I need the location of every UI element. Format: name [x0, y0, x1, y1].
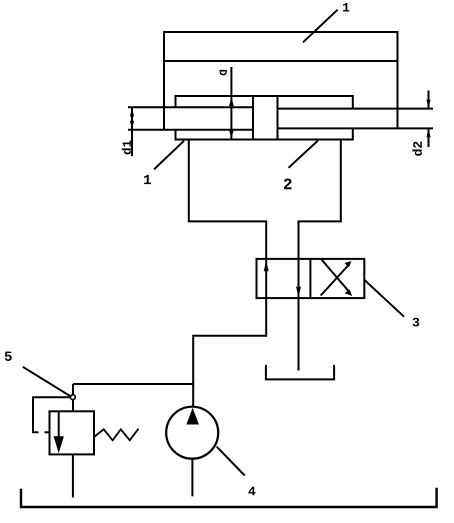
wire: relief valve riser lower	[72, 400, 74, 412]
dimension D line	[230, 67, 232, 139]
pilot line	[33, 397, 70, 432]
dimension label D	[220, 70, 227, 75]
valve left cell flow line down	[298, 259, 300, 298]
piston rod right section (d2) bottom line	[278, 127, 434, 129]
wire: relief valve drain to tank	[72, 454, 74, 497]
wire: valve outlet down to pump riser	[193, 298, 266, 406]
leader line for label 3	[364, 280, 404, 317]
dimension D upper arrowhead	[229, 97, 234, 106]
valve right cell crossed line 1	[322, 260, 351, 294]
valve body	[257, 259, 365, 298]
label 3	[413, 318, 420, 327]
leader line for label 1 (bottom left)	[154, 141, 184, 170]
valve right cell crossed line 2	[321, 264, 350, 296]
cylinder bore bottom wall	[176, 128, 353, 139]
wire: left cylinder port to valve inlet	[189, 141, 266, 260]
wire: right cylinder port to valve port	[299, 141, 341, 260]
piston rod left section (d1) top line	[128, 106, 253, 108]
label 5	[5, 352, 12, 361]
piston rod right section (d2) top line	[278, 108, 434, 110]
valve left cell flow line up	[265, 259, 267, 298]
label 4	[248, 487, 255, 496]
wire: pump suction to tank	[191, 459, 193, 497]
pilot tap node circle	[71, 395, 76, 400]
valve crossed line 2 arrowhead	[345, 261, 352, 267]
piston right edge	[277, 96, 279, 140]
cylinder bore top wall	[176, 96, 353, 109]
dimension d1 lower arrowhead	[130, 121, 134, 130]
label 2	[284, 179, 292, 190]
leader line for label 1 (top)	[303, 10, 338, 43]
dimension d2 lower line segment	[428, 129, 430, 148]
label 1 (top)	[343, 3, 349, 12]
dimension label d1	[122, 141, 131, 155]
dimension label d2	[412, 142, 422, 156]
dimension d2 lower arrowhead	[426, 129, 430, 138]
relief valve spring	[94, 429, 139, 441]
piston left edge	[252, 96, 254, 140]
relief valve internal flow line	[58, 411, 60, 437]
leader line for label 4	[217, 447, 245, 476]
label 1 (bottom left)	[144, 175, 151, 184]
dimension d2 upper line segment	[428, 91, 430, 109]
relief valve internal arrowhead	[54, 436, 64, 453]
cylinder housing outer walls	[164, 32, 398, 131]
leader line for label 2	[289, 141, 319, 168]
piston rod left section (d1) bottom line	[128, 129, 253, 131]
relief valve body	[50, 411, 95, 454]
valve cell divider	[309, 259, 311, 298]
dimension d1 upper arrowhead	[130, 108, 134, 117]
wire: relief valve riser upper	[72, 384, 74, 395]
leader line for label 5	[23, 367, 71, 397]
pilot line dashed entry	[32, 431, 50, 433]
pump flow arrow	[186, 408, 199, 425]
wire: valve drain to small tank	[298, 298, 300, 370]
pump circle	[166, 407, 218, 459]
dimension d2 upper arrowhead	[426, 100, 430, 109]
valve left cell up arrowhead	[264, 261, 269, 271]
cylinder housing divider line	[163, 60, 399, 62]
valve crossed line 1 arrowhead	[345, 289, 353, 296]
dimension d1 line	[131, 108, 133, 157]
wire: manifold from relief valve to pump riser	[73, 383, 193, 385]
valve left cell down arrowhead	[296, 287, 301, 297]
small tank under valve	[266, 365, 334, 380]
main tank	[21, 488, 437, 507]
dimension D lower arrowhead	[229, 130, 234, 139]
